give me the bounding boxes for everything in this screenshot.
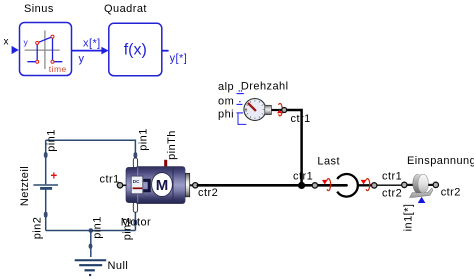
Last left rotation arrow <box>322 179 331 191</box>
capsule motor pin1 wire <box>134 152 137 158</box>
svg-text:pin2: pin2 <box>32 217 44 240</box>
svg-text:om: om <box>218 96 234 108</box>
svg-text:f(x): f(x) <box>124 42 147 59</box>
svg-text:ctr1: ctr1 <box>100 174 120 186</box>
svg-text:Last: Last <box>317 156 340 168</box>
Einspannung cylinder band <box>413 174 423 193</box>
shaft wire motor to Last center <box>198 184 347 187</box>
svg-text:pinTh: pinTh <box>166 130 178 160</box>
port phi mark <box>237 112 244 114</box>
Einspannung cylinder face <box>418 174 428 193</box>
port om mark <box>237 101 243 104</box>
svg-text:x[*]: x[*] <box>83 38 101 50</box>
svg-text:pin1: pin1 <box>92 216 104 239</box>
port bracket under gauge <box>238 114 246 125</box>
motor DC red line <box>133 187 143 189</box>
junction ground <box>89 228 94 233</box>
arrowhead into Quadrat <box>101 47 108 55</box>
Einspannung left dot <box>402 182 407 187</box>
ground Null symbol <box>75 260 107 270</box>
motor pin2 white capsule <box>133 202 137 212</box>
svg-text:time: time <box>49 64 67 74</box>
svg-text:ctr1: ctr1 <box>293 171 313 183</box>
wire ground stub <box>90 231 92 258</box>
svg-text:+: + <box>51 171 58 183</box>
svg-text:ctr2: ctr2 <box>441 186 461 198</box>
Einspannung input triangle <box>418 197 426 203</box>
Netzteil battery plates <box>33 185 58 188</box>
gauge needle <box>248 103 256 111</box>
capsule pin1 netzteil <box>44 152 47 157</box>
sensor shaft cylinder <box>265 105 272 114</box>
Last right wire <box>358 184 374 186</box>
Sinus icon waveform <box>27 37 62 62</box>
sensor wire down <box>286 110 302 185</box>
Last right rotation arrow <box>361 179 370 191</box>
Einspannung left stub <box>407 184 414 186</box>
wire battery top vertical <box>45 140 47 184</box>
svg-text:x: x <box>4 37 9 48</box>
Einspannung base plate <box>410 188 433 197</box>
capsule motor pin2 wire <box>134 220 137 226</box>
sensor rotation arrow <box>277 103 282 115</box>
svg-text:Motor: Motor <box>121 217 151 229</box>
ground dot <box>89 274 91 276</box>
motor ctr2 connector <box>190 184 195 186</box>
svg-text:pin1: pin1 <box>46 129 58 152</box>
motor seam <box>172 167 174 204</box>
wire Last to Einspannung <box>377 184 402 186</box>
motor M circle <box>152 173 173 197</box>
svg-text:y[*]: y[*] <box>170 53 188 65</box>
svg-text:Sinus: Sinus <box>24 3 54 15</box>
motor thermal pin pinTh <box>164 160 167 167</box>
svg-text:in1[*]: in1[*] <box>403 204 415 232</box>
capsule ground <box>89 244 92 249</box>
svg-text:ctr2: ctr2 <box>382 187 402 199</box>
svg-text:y: y <box>79 53 85 65</box>
capsule pin2 netzteil <box>44 212 47 217</box>
svg-text:Quadrat: Quadrat <box>104 3 147 15</box>
svg-text:Null: Null <box>108 260 129 272</box>
port alp mark <box>237 90 244 93</box>
Einspannung right dot <box>433 182 438 187</box>
svg-text:ctr2: ctr2 <box>198 187 218 199</box>
motor stator bracket <box>143 179 151 193</box>
svg-text:M: M <box>156 177 169 194</box>
motor pin1 white capsule <box>133 158 137 168</box>
Sinus icon axes <box>25 30 60 69</box>
junction shaft <box>298 182 305 189</box>
motor ctr1 connector <box>123 184 127 186</box>
block Quadrat frame <box>109 23 162 76</box>
svg-text:phi: phi <box>218 109 234 121</box>
wire motor pin2 vertical <box>134 212 136 231</box>
svg-text:Einspannung: Einspannung <box>407 155 474 167</box>
svg-text:Netzteil: Netzteil <box>19 166 31 206</box>
motor DC panel <box>131 176 143 194</box>
svg-text:alp: alp <box>218 81 234 93</box>
Quadrat output tick <box>162 50 169 52</box>
Last inertia circle <box>337 174 358 197</box>
wire top rail <box>46 140 136 152</box>
wire bottom rail <box>46 230 136 232</box>
wire Sinus to Quadrat <box>71 50 102 52</box>
Sinus icon points <box>36 35 54 63</box>
sensor stub wire <box>272 109 284 111</box>
svg-text:Drehzahl: Drehzahl <box>241 80 289 92</box>
wire battery bottom vertical <box>45 188 47 230</box>
Einspannung right stub <box>428 184 433 186</box>
port x input triangle <box>12 46 19 54</box>
gauge ticks <box>245 100 265 120</box>
svg-text:y: y <box>24 37 29 47</box>
svg-text:0: 0 <box>245 108 248 113</box>
svg-text:ctr1: ctr1 <box>382 170 402 182</box>
motor left cap <box>126 167 138 202</box>
motor shaft <box>185 173 189 197</box>
Last right dot <box>372 183 377 188</box>
svg-text:DC: DC <box>133 179 140 184</box>
motor body <box>135 166 185 204</box>
Drehzahl gauge body <box>244 99 266 121</box>
block Sinus frame <box>20 23 72 76</box>
svg-text:pin1: pin1 <box>138 128 150 151</box>
Last left dot <box>312 183 317 188</box>
sensor ctr1 dot <box>282 108 287 113</box>
